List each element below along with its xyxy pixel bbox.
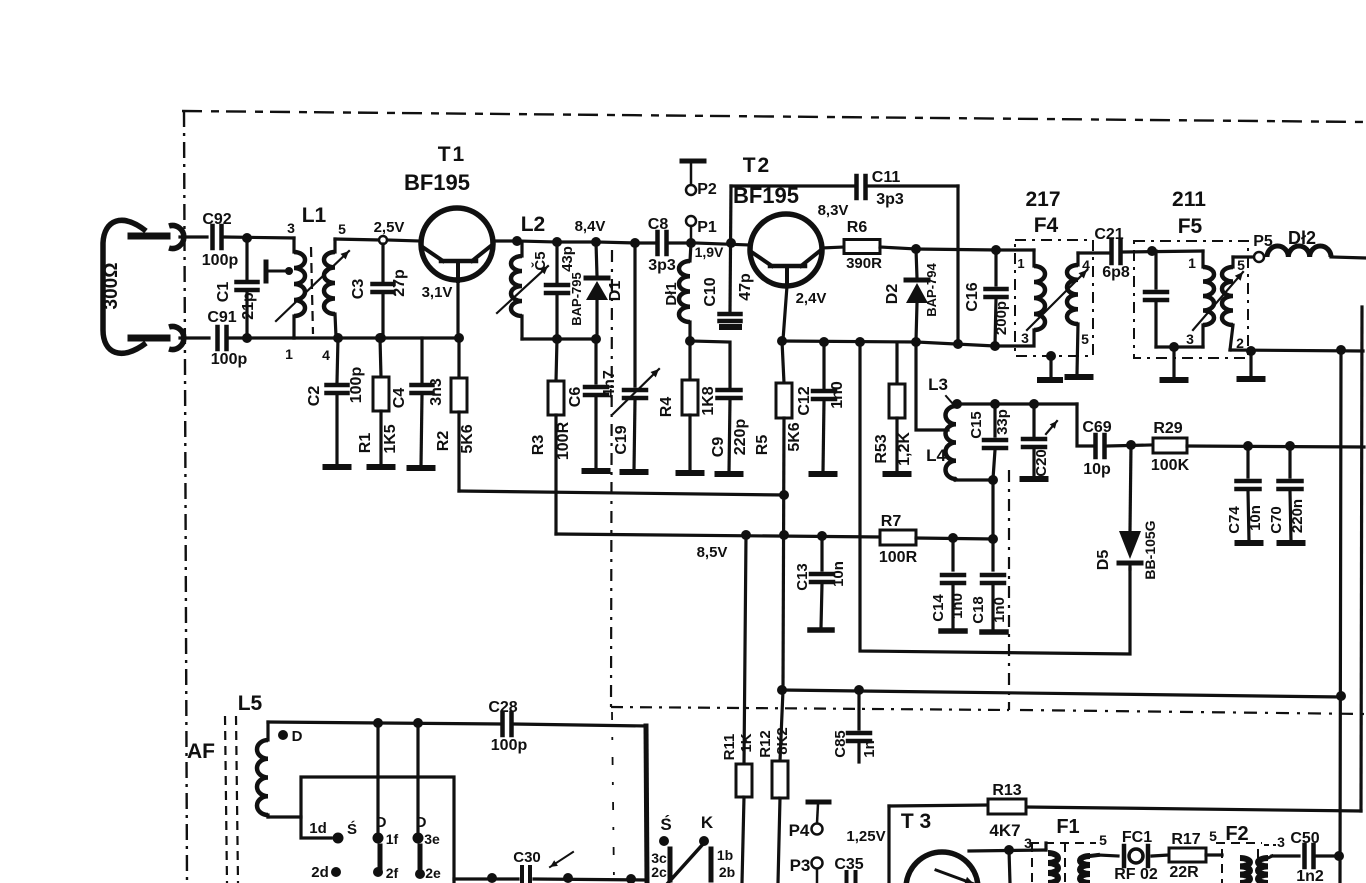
wire F4 to C21 bbox=[1078, 251, 1109, 254]
node F5 pin2 ground bbox=[1246, 346, 1256, 356]
switch pin 2e bbox=[415, 865, 441, 881]
svg-text:1K8: 1K8 bbox=[700, 386, 717, 415]
svg-text:R13: R13 bbox=[992, 782, 1021, 799]
wire C8 to P1 bbox=[667, 241, 687, 244]
wire T1 collector to L2 bbox=[493, 239, 517, 242]
svg-text:C13: C13 bbox=[794, 563, 811, 591]
test point P3 bbox=[812, 858, 823, 883]
switch bar 2 bbox=[418, 846, 423, 870]
label R3 value bbox=[555, 421, 572, 460]
label C9 value bbox=[732, 419, 749, 456]
switch S bar bbox=[668, 849, 673, 880]
svg-text:3p3: 3p3 bbox=[876, 191, 904, 208]
capacitor C4 bbox=[412, 338, 433, 466]
inductor L1 primary bbox=[294, 238, 305, 338]
inductor F5 secondary bbox=[1222, 257, 1233, 350]
svg-text:4K7: 4K7 bbox=[989, 821, 1020, 840]
svg-text:5: 5 bbox=[338, 221, 346, 237]
wire antenna top to C92 bbox=[180, 235, 207, 238]
svg-text:T1: T1 bbox=[438, 143, 467, 166]
node R5 top / T2e bbox=[777, 336, 787, 346]
svg-text:220n: 220n bbox=[1289, 499, 1306, 533]
ceramic filter FC1 bbox=[1124, 846, 1148, 866]
svg-text:10p: 10p bbox=[1083, 461, 1111, 478]
switch pin 2f bbox=[373, 865, 399, 881]
svg-text:R3: R3 bbox=[530, 435, 547, 456]
resistor R3 bbox=[548, 339, 564, 534]
svg-text:43p: 43p bbox=[559, 246, 576, 272]
svg-text:1,2K: 1,2K bbox=[896, 432, 913, 466]
svg-text:5: 5 bbox=[1209, 828, 1217, 844]
label C8 bbox=[648, 216, 669, 233]
wire F2 to C50 bbox=[1268, 856, 1299, 858]
wire F1 to FC1 bbox=[1098, 855, 1118, 856]
svg-text:1: 1 bbox=[1188, 255, 1196, 271]
node R6/D2 junction bbox=[911, 244, 921, 254]
label D2 bbox=[884, 284, 901, 305]
svg-text:3e: 3e bbox=[424, 831, 440, 847]
inductor F1 primary bbox=[1048, 853, 1058, 883]
wire L5 bottom bbox=[268, 817, 331, 838]
resistor R2 bbox=[451, 338, 467, 491]
label 2.5V bbox=[374, 219, 405, 236]
svg-text:BB-105G: BB-105G bbox=[1142, 520, 1158, 579]
node R1 junction bbox=[375, 333, 385, 343]
label C11 value bbox=[876, 191, 904, 208]
label K switch bbox=[701, 813, 714, 832]
label R3 bbox=[530, 435, 547, 456]
wire T3 collector bbox=[969, 850, 1046, 851]
node C91/C1 junction bbox=[242, 333, 252, 343]
svg-text:1b: 1b bbox=[717, 847, 733, 863]
wire F5 output bottom bbox=[1230, 350, 1363, 351]
svg-text:5: 5 bbox=[1237, 257, 1245, 273]
C19 arrow bbox=[613, 369, 659, 414]
ground F4 secondary bbox=[1068, 374, 1091, 380]
node L2 top junction bbox=[512, 236, 522, 246]
label S accent bbox=[347, 820, 357, 838]
node D2 bottom bbox=[911, 337, 921, 347]
svg-text:D: D bbox=[416, 814, 427, 831]
capacitor C2 bbox=[327, 338, 348, 465]
label R13 bbox=[992, 782, 1021, 799]
wire P1 to T2 base bbox=[695, 243, 750, 245]
label FC1 type bbox=[1114, 866, 1158, 883]
capacitor C18 bbox=[982, 539, 1006, 632]
capacitor C35 bbox=[847, 872, 856, 883]
capacitor C28 bbox=[503, 713, 512, 735]
label C18 bbox=[970, 596, 987, 624]
svg-text:FC1: FC1 bbox=[1122, 829, 1152, 846]
label R5 bbox=[754, 435, 771, 456]
label 1d bbox=[309, 820, 327, 837]
capacitor C5 bbox=[546, 242, 568, 339]
capacitor C50 bbox=[1305, 845, 1314, 867]
label R12 bbox=[757, 730, 774, 758]
switch pin 2d bbox=[311, 864, 341, 881]
L1 core dashed line bbox=[311, 247, 313, 334]
label C13 bbox=[794, 563, 811, 591]
svg-text:F2: F2 bbox=[1225, 823, 1248, 845]
svg-text:21p: 21p bbox=[240, 292, 257, 320]
wire C16 node to F4 bbox=[996, 248, 1034, 251]
svg-text:2e: 2e bbox=[425, 865, 441, 881]
label C74 bbox=[1226, 506, 1243, 534]
label Dl1 bbox=[663, 282, 680, 305]
antenna socket top bbox=[169, 226, 184, 249]
ground C6 bbox=[585, 468, 608, 474]
node C16 top bbox=[991, 245, 1001, 255]
svg-text:1,9V: 1,9V bbox=[695, 244, 724, 260]
L3 pointer bbox=[946, 396, 953, 404]
svg-text:P3: P3 bbox=[790, 856, 811, 875]
label R29 value bbox=[1151, 457, 1190, 474]
node C70 top bbox=[1285, 441, 1295, 451]
capacitor C85 bbox=[848, 690, 870, 762]
svg-text:1K5: 1K5 bbox=[382, 424, 399, 453]
label C92 bbox=[202, 211, 231, 228]
capacitor C8 bbox=[658, 232, 667, 254]
node AF rail 2 bbox=[563, 873, 573, 883]
svg-text:1n0: 1n0 bbox=[949, 593, 966, 619]
svg-text:5: 5 bbox=[1081, 331, 1089, 347]
label R29 bbox=[1153, 420, 1182, 437]
svg-text:100R: 100R bbox=[555, 421, 572, 460]
svg-text:390R: 390R bbox=[846, 255, 882, 272]
node C15 bottom bbox=[988, 475, 998, 485]
node C12 top bbox=[819, 337, 829, 347]
svg-text:C30: C30 bbox=[513, 849, 541, 866]
svg-text:220p: 220p bbox=[732, 419, 749, 456]
switch bar 1 bbox=[378, 846, 383, 870]
capacitor C30 bbox=[522, 867, 530, 883]
svg-text:Dł1: Dł1 bbox=[663, 282, 680, 305]
L1 tap terminal bbox=[266, 262, 293, 281]
wire C92 to L1 bbox=[225, 237, 294, 238]
svg-text:F5: F5 bbox=[1178, 215, 1203, 238]
label Dl2 bbox=[1288, 228, 1316, 248]
svg-text:C18: C18 bbox=[970, 596, 987, 624]
svg-text:C19: C19 bbox=[613, 425, 630, 454]
svg-text:2f: 2f bbox=[386, 865, 399, 881]
svg-text:C12: C12 bbox=[796, 386, 813, 415]
frame top dashed border bbox=[182, 111, 1366, 122]
svg-text:C21: C21 bbox=[1094, 226, 1123, 243]
svg-text:3: 3 bbox=[287, 220, 295, 236]
diode D1 bbox=[586, 242, 608, 339]
resistor R4 bbox=[682, 341, 698, 471]
label R13 value bbox=[989, 821, 1020, 840]
wire AFC line bbox=[782, 690, 1341, 697]
svg-text:3: 3 bbox=[1021, 330, 1029, 346]
node right bus top bbox=[1336, 345, 1346, 355]
svg-text:Dł2: Dł2 bbox=[1288, 228, 1316, 248]
resistor R17 bbox=[1169, 848, 1206, 862]
label R17 bbox=[1171, 831, 1200, 848]
wire bus to F4 pin3 bbox=[916, 330, 1034, 346]
svg-text:1n: 1n bbox=[861, 740, 878, 758]
frame left dash-dot border bbox=[184, 111, 187, 883]
label R11 value bbox=[738, 733, 755, 752]
resistor R5 bbox=[776, 341, 792, 690]
svg-text:8,5V: 8,5V bbox=[697, 544, 728, 561]
svg-text:D: D bbox=[292, 728, 303, 745]
wire T2 top to C11 bbox=[731, 184, 853, 187]
capacitor C16 bbox=[986, 250, 1007, 345]
svg-text:F4: F4 bbox=[1034, 214, 1059, 237]
C30 arrow bbox=[550, 852, 573, 867]
ground C20 bbox=[1023, 476, 1046, 482]
label C10 value bbox=[737, 273, 754, 301]
F5 pin2 ground stem bbox=[1240, 351, 1263, 379]
svg-text:100R: 100R bbox=[879, 549, 918, 566]
svg-text:R5: R5 bbox=[754, 435, 771, 456]
svg-text:BF195: BF195 bbox=[404, 170, 470, 195]
wire C20 node to C69 bbox=[1077, 404, 1092, 446]
wire T1 emitter bbox=[456, 281, 459, 338]
switch K pin bbox=[699, 836, 709, 846]
svg-text:C28: C28 bbox=[488, 699, 517, 716]
label C20 bbox=[1033, 449, 1050, 477]
filter F1 box bbox=[1030, 843, 1096, 883]
label C12 bbox=[796, 386, 813, 415]
svg-text:200p: 200p bbox=[993, 301, 1010, 335]
svg-text:1f: 1f bbox=[386, 831, 399, 847]
svg-text:C85: C85 bbox=[832, 730, 849, 758]
wire right bus B bbox=[1361, 307, 1362, 811]
svg-text:10n: 10n bbox=[1247, 505, 1264, 531]
resistor R1 bbox=[373, 338, 389, 465]
label C1 bbox=[215, 282, 232, 303]
ground C74 bbox=[1238, 540, 1261, 546]
node C14 top bbox=[948, 533, 958, 543]
ground R53 bbox=[886, 471, 909, 477]
node AF rail 3 bbox=[626, 874, 636, 883]
svg-text:5K6: 5K6 bbox=[786, 422, 803, 451]
svg-text:8K2: 8K2 bbox=[774, 727, 791, 755]
svg-text:C70: C70 bbox=[1268, 506, 1285, 534]
wire osc bottom bbox=[955, 478, 993, 481]
label C5 value bbox=[559, 246, 576, 272]
svg-text:P1: P1 bbox=[697, 219, 717, 236]
svg-text:1: 1 bbox=[285, 346, 293, 362]
label C91 value bbox=[211, 351, 248, 368]
capacitor C12 bbox=[813, 342, 835, 472]
label L4 bbox=[926, 446, 946, 465]
label C92 value bbox=[202, 252, 239, 269]
label T1 type bbox=[404, 170, 470, 195]
node F5 input bbox=[1147, 246, 1157, 256]
resistor R6 bbox=[844, 240, 880, 254]
inductor F5 primary bbox=[1203, 251, 1214, 347]
svg-text:R29: R29 bbox=[1153, 420, 1182, 437]
label P2 bbox=[697, 181, 717, 198]
svg-text:5K6: 5K6 bbox=[459, 424, 476, 453]
test point P4 bbox=[808, 802, 829, 835]
label R53 value bbox=[896, 432, 913, 466]
test point P2 bbox=[682, 161, 704, 195]
svg-text:BAP-794: BAP-794 bbox=[924, 262, 939, 316]
label F1 pin5 bbox=[1099, 832, 1107, 848]
capacitor C74 bbox=[1237, 446, 1260, 541]
inductor Dl1 bbox=[679, 243, 691, 340]
wire osc top bbox=[957, 402, 1077, 405]
label C15 bbox=[968, 411, 985, 439]
label F4 pin4 bbox=[1082, 257, 1090, 273]
capacitor F5 internal bbox=[1145, 251, 1167, 347]
node R12 junction bbox=[777, 685, 787, 695]
wire into F1 bbox=[1044, 843, 1047, 850]
svg-text:BF195: BF195 bbox=[733, 183, 799, 208]
label C4 bbox=[391, 388, 408, 409]
label D5 bbox=[1095, 550, 1112, 571]
ground C12 bbox=[812, 471, 835, 477]
label C50 value bbox=[1296, 868, 1324, 883]
label C85 bbox=[832, 730, 849, 758]
label R5 value bbox=[786, 422, 803, 451]
label C16 bbox=[964, 282, 981, 311]
svg-text:1n2: 1n2 bbox=[1296, 868, 1324, 883]
svg-text:L1: L1 bbox=[302, 204, 327, 227]
label C21 value bbox=[1102, 264, 1130, 281]
antenna label 300R bbox=[101, 263, 122, 310]
svg-text:C11: C11 bbox=[872, 169, 901, 186]
node C50 join bbox=[1334, 851, 1344, 861]
label 8.4V bbox=[575, 218, 606, 235]
wire L1 to T1 base bbox=[335, 239, 420, 241]
svg-text:C91: C91 bbox=[207, 309, 236, 326]
wire R17 to F2 bbox=[1206, 853, 1222, 856]
svg-text:33p: 33p bbox=[994, 409, 1011, 435]
label F2 pin5 bbox=[1209, 828, 1217, 844]
resistor R7 bbox=[880, 530, 916, 545]
svg-text:R7: R7 bbox=[881, 513, 902, 530]
svg-text:RF 02: RF 02 bbox=[1114, 866, 1158, 883]
node Dl1 bottom junction bbox=[685, 336, 695, 346]
label F5 bbox=[1178, 215, 1203, 238]
wire C69 to R29 bbox=[1108, 445, 1150, 446]
wire L5 top rail bbox=[268, 722, 646, 726]
diode D2 bbox=[906, 249, 928, 341]
label C14 value bbox=[949, 593, 966, 619]
label 211 bbox=[1172, 188, 1206, 211]
label L2 bbox=[521, 213, 546, 236]
F4 shield ground bbox=[1040, 351, 1060, 380]
svg-text:P4: P4 bbox=[789, 821, 810, 840]
AF dashed pair bbox=[225, 716, 238, 883]
wire AF bottom rail bbox=[454, 879, 646, 880]
svg-text:3p3: 3p3 bbox=[648, 257, 676, 274]
wire 8.5V rail bbox=[556, 534, 880, 537]
wire F5 pin5 to P5 bbox=[1233, 255, 1252, 258]
capacitor C11 bbox=[857, 176, 866, 198]
ground C4 bbox=[410, 465, 433, 471]
label C6 value bbox=[601, 370, 618, 398]
svg-text:C69: C69 bbox=[1082, 419, 1111, 436]
F4 arrow bbox=[1027, 270, 1087, 330]
wire L2 bottom segment bbox=[522, 337, 597, 340]
svg-text:C50: C50 bbox=[1290, 830, 1319, 847]
label R53 bbox=[873, 434, 890, 463]
F5 arrow bbox=[1193, 272, 1243, 330]
label F2 pin3 bbox=[1264, 834, 1285, 850]
label 2b bbox=[719, 864, 735, 880]
label L1 pin3 bbox=[287, 220, 295, 236]
svg-text:300Ω: 300Ω bbox=[101, 263, 122, 310]
node osc coil top bbox=[952, 399, 962, 409]
label D1 bbox=[607, 281, 624, 302]
label 8.3V bbox=[818, 202, 849, 219]
svg-text:C92: C92 bbox=[202, 211, 231, 228]
node D5 top bbox=[1126, 440, 1136, 450]
capacitor C92 bbox=[213, 226, 222, 248]
node osc branch bbox=[953, 339, 963, 349]
svg-text:10n: 10n bbox=[830, 561, 847, 587]
label R2 value bbox=[459, 424, 476, 453]
node C19 top bbox=[630, 238, 640, 248]
wire antenna bottom to C91 bbox=[180, 336, 209, 339]
svg-text:L3: L3 bbox=[928, 375, 948, 394]
label F5 pin2 bbox=[1236, 335, 1244, 351]
label R17 value bbox=[1169, 864, 1199, 881]
svg-text:C2: C2 bbox=[306, 386, 323, 407]
wire T3 top rail bbox=[1026, 807, 1361, 811]
svg-text:AF: AF bbox=[187, 740, 215, 763]
switch pin 1f bbox=[373, 833, 384, 844]
node F5 ground bbox=[1169, 342, 1179, 352]
node C2 junction bbox=[333, 333, 343, 343]
inductor L3 L4 bbox=[946, 404, 957, 480]
wire T2 emitter bbox=[783, 286, 787, 340]
svg-text:22R: 22R bbox=[1169, 864, 1199, 881]
wire C50 to bus bbox=[1317, 854, 1339, 857]
svg-text:3n3: 3n3 bbox=[428, 378, 445, 406]
svg-text:2,4V: 2,4V bbox=[796, 290, 827, 307]
label C35 bbox=[834, 856, 863, 873]
wire L4 tap bbox=[916, 342, 948, 430]
label P4 bbox=[789, 821, 810, 840]
switch K lever bbox=[668, 843, 704, 883]
label R6 value bbox=[846, 255, 882, 272]
inductor Dl2 bbox=[1267, 246, 1331, 257]
capacitor C69 bbox=[1096, 435, 1105, 457]
label R6 bbox=[847, 219, 868, 236]
svg-text:8,3V: 8,3V bbox=[818, 202, 849, 219]
node C74 top bbox=[1243, 441, 1253, 451]
node C20 top bbox=[1029, 399, 1039, 409]
label C5 bbox=[531, 251, 549, 270]
svg-text:C74: C74 bbox=[1226, 506, 1243, 534]
label F5 pin5 bbox=[1237, 257, 1245, 273]
wire osc to R7 node bbox=[991, 480, 994, 538]
label 2c bbox=[651, 864, 667, 880]
label C3 bbox=[350, 279, 367, 300]
label F5 pin1 bbox=[1188, 255, 1196, 271]
svg-text:R6: R6 bbox=[847, 219, 868, 236]
section divider dashed horizontal right bbox=[1020, 710, 1366, 714]
wire R29 output bbox=[1187, 446, 1364, 447]
wire C21 to F5 bbox=[1124, 251, 1203, 252]
label C4 value bbox=[428, 378, 445, 406]
svg-text:BAP-795: BAP-795 bbox=[569, 272, 584, 325]
label F4 bbox=[1034, 214, 1059, 237]
node D1 top bbox=[591, 237, 601, 247]
node AFC join bbox=[1336, 691, 1346, 701]
capacitor C70 bbox=[1279, 446, 1302, 541]
ground R4 bbox=[679, 470, 702, 476]
label P5 bbox=[1253, 233, 1273, 250]
node AF rail 1 bbox=[487, 873, 497, 883]
